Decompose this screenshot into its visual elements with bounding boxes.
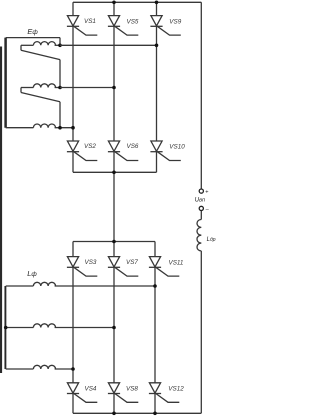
svg-text:Uвп: Uвп bbox=[195, 197, 205, 204]
node: phase B tap bbox=[58, 86, 62, 90]
thyristor VS6 bbox=[108, 141, 139, 161]
wire: right rail lower bbox=[200, 211, 202, 220]
wire: winding1 slant link bbox=[21, 50, 60, 59]
wire: bridge leg 1 top (VS1/VS2 column) bbox=[72, 2, 74, 172]
wire: bridge leg 3 top (VS9/VS10 column) bbox=[156, 2, 158, 172]
svg-text:Eф: Eф bbox=[27, 27, 38, 36]
thyristor VS1 bbox=[67, 16, 97, 35]
inductor coil filter inductor row2 bbox=[33, 324, 55, 328]
node: phase C / leg1 junction bbox=[71, 126, 75, 130]
node: row1 / leg3 junction bbox=[153, 284, 157, 288]
wire: right rail upper (to + terminal) bbox=[200, 2, 202, 189]
wire: left vertical of filter group bbox=[4, 286, 6, 369]
thyristor VS5 bbox=[108, 16, 139, 35]
svg-text:VS4: VS4 bbox=[85, 385, 97, 392]
wire: phase A line to leg3 bbox=[60, 44, 157, 46]
node: top bus / leg3 junction bbox=[155, 1, 159, 5]
svg-text:VS12: VS12 bbox=[168, 386, 184, 393]
wire: filter row2 bbox=[6, 327, 34, 329]
svg-text:VS6: VS6 bbox=[127, 143, 139, 150]
thyristor VS4 bbox=[67, 383, 97, 403]
svg-text:Lф: Lф bbox=[27, 269, 37, 278]
node: phase C tap bbox=[58, 126, 62, 130]
thyristor VS8 bbox=[108, 383, 138, 403]
svg-text:VS11: VS11 bbox=[169, 260, 184, 267]
wire: winding1 leads bbox=[21, 44, 33, 46]
wire: winding2 leads bbox=[21, 87, 33, 89]
svg-text:VS5: VS5 bbox=[127, 19, 139, 26]
node: bottom bus / leg2 bbox=[112, 412, 116, 416]
thyristor VS2 bbox=[67, 141, 97, 161]
wire: top bus bbox=[73, 1, 201, 3]
terminal + (circle) bbox=[199, 189, 203, 193]
node: bottom bus / leg3 bbox=[153, 412, 157, 416]
thyristor VS11 bbox=[149, 257, 184, 277]
wire: filter row1 bbox=[6, 285, 34, 287]
wire: bridge leg 2 (VS5/VS6/VS7/VS8 column) bbox=[113, 2, 115, 413]
inductor coil winding W2 bbox=[33, 84, 55, 88]
wire: lower bridge top bus bbox=[73, 241, 155, 243]
wire: bottom bus bbox=[73, 412, 201, 414]
terminal - (circle) bbox=[199, 206, 203, 210]
node: phase B / leg2 junction bbox=[112, 86, 116, 90]
svg-text:VS3: VS3 bbox=[85, 259, 97, 266]
node: phase A / leg3 junction bbox=[155, 44, 159, 48]
inductor Lдр (smoothing reactor) bbox=[197, 219, 201, 250]
svg-text:VS8: VS8 bbox=[126, 385, 138, 392]
wire: transformer top link bbox=[6, 37, 60, 39]
svg-text:VS1: VS1 bbox=[84, 18, 96, 25]
wire: left supply line 2 (top: transformer left link) bbox=[4, 38, 7, 128]
node: top bus / leg2 junction bbox=[112, 1, 116, 5]
node: row2 / left vertical junction bbox=[4, 326, 8, 330]
node: lower bridge top bus / leg2 junction bbox=[112, 240, 116, 244]
inductor coil winding W3 bbox=[33, 124, 55, 128]
inductor coil winding W1 bbox=[33, 42, 55, 46]
wire: bridge leg 3 bottom (VS11/VS12 column) bbox=[154, 242, 156, 414]
node: phase A tap bbox=[58, 44, 62, 48]
thyristor VS3 bbox=[67, 257, 97, 277]
wire: upper bridge bottom bus bbox=[73, 171, 157, 173]
wire: winding2 slant link bbox=[21, 93, 60, 102]
inductor coil filter inductor row3 bbox=[33, 365, 55, 369]
wire: left supply line 1 bbox=[0, 47, 2, 374]
wire: phase B line to leg2 bbox=[60, 87, 114, 89]
svg-text:VS9: VS9 bbox=[169, 19, 181, 26]
inductor coil filter inductor row1 bbox=[33, 282, 55, 286]
wire: filter row3 bbox=[6, 368, 34, 370]
node: row3 / leg1 junction bbox=[71, 367, 75, 371]
svg-text:VS7: VS7 bbox=[126, 259, 138, 266]
thyristor VS12 bbox=[149, 383, 184, 403]
node: bottom bus / leg2 junction bbox=[112, 171, 116, 175]
thyristor VS9 bbox=[150, 16, 181, 35]
svg-text:VS2: VS2 bbox=[84, 143, 96, 150]
svg-text:+: + bbox=[205, 189, 208, 195]
svg-text:VS10: VS10 bbox=[169, 143, 185, 150]
svg-text:Lдр: Lдр bbox=[207, 237, 216, 243]
thyristor VS7 bbox=[108, 257, 138, 277]
wire: winding3 leads bbox=[6, 127, 34, 129]
wire: bridge leg 1 bottom (VS3/VS4 column) bbox=[72, 242, 74, 414]
thyristor VS10 bbox=[150, 141, 185, 161]
node: row2 / leg2 junction bbox=[112, 326, 116, 330]
